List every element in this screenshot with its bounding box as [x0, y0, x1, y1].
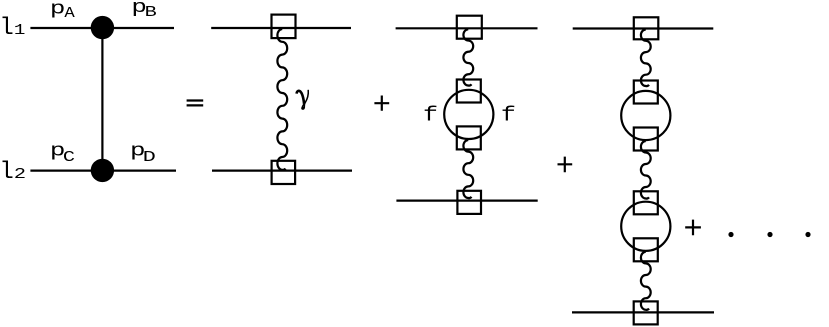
photon wavy line upper (diagram 2)	[463, 29, 473, 85]
vertex box bottom (diagram 2)	[457, 191, 481, 214]
fermion line top (diagram 2)	[396, 27, 538, 29]
svg-text:1: 1	[14, 23, 26, 40]
vertex box top (diagram 2)	[457, 16, 482, 39]
fermion line bottom (diagram 1)	[212, 170, 352, 172]
loop vertex box lower (diagram 2)	[457, 126, 481, 149]
loop1 vertex box lower (diagram 3)	[634, 128, 658, 151]
lepton line l1 (top left)	[30, 27, 174, 29]
fermion line bottom (diagram 2)	[396, 200, 537, 202]
blob vertex top (filled circle)	[91, 16, 114, 39]
fermion line top (diagram 3)	[573, 27, 714, 29]
equals sign	[187, 101, 204, 106]
svg-text:A: A	[64, 5, 75, 22]
label gamma (photon)	[297, 90, 309, 110]
svg-text:B: B	[145, 4, 158, 21]
photon wavy line lower (diagram 2)	[463, 140, 473, 198]
plus sign 3	[685, 220, 701, 236]
ellipsis dot 1	[728, 232, 733, 237]
vertex box bottom (diagram 1)	[272, 161, 296, 184]
photon wavy line upper (diagram 3)	[641, 30, 651, 87]
svg-text:f: f	[423, 104, 438, 127]
photon wavy line middle (diagram 3)	[641, 141, 651, 199]
svg-text:2: 2	[14, 166, 26, 183]
vertex box bottom (diagram 3)	[634, 301, 658, 324]
fermion line top (diagram 1)	[211, 27, 351, 29]
svg-text:D: D	[143, 148, 156, 166]
fermion loop circle (diagram 2)	[444, 90, 493, 139]
fermion loop circle 2 (diagram 3)	[621, 202, 670, 251]
vertex box top (diagram 3)	[634, 17, 659, 39]
loop vertex box upper (diagram 2)	[457, 80, 481, 103]
loop1 vertex box upper (diagram 3)	[634, 81, 658, 104]
svg-text:C: C	[63, 149, 75, 166]
svg-text:l: l	[0, 15, 14, 42]
vertex box top (diagram 1)	[272, 15, 296, 38]
plus sign 2	[558, 157, 573, 173]
fermion loop circle 1 (diagram 3)	[621, 91, 670, 140]
svg-text:p: p	[50, 0, 66, 19]
loop2 vertex box lower (diagram 3)	[634, 238, 658, 261]
photon wavy line lower (diagram 3)	[641, 252, 651, 310]
fermion line bottom (diagram 3)	[572, 311, 714, 313]
lepton line l2 (bottom left)	[30, 170, 176, 172]
blob vertex bottom (filled circle)	[91, 159, 114, 182]
svg-text:f: f	[501, 104, 516, 127]
photon propagator wavy line (diagram 1)	[277, 29, 287, 170]
full propagator line (vertical)	[101, 28, 103, 171]
ellipsis dot 2	[767, 232, 772, 237]
svg-text:l: l	[0, 159, 14, 186]
loop2 vertex box upper (diagram 3)	[634, 191, 658, 214]
ellipsis dot 3	[805, 232, 810, 237]
plus sign 1	[374, 96, 389, 111]
